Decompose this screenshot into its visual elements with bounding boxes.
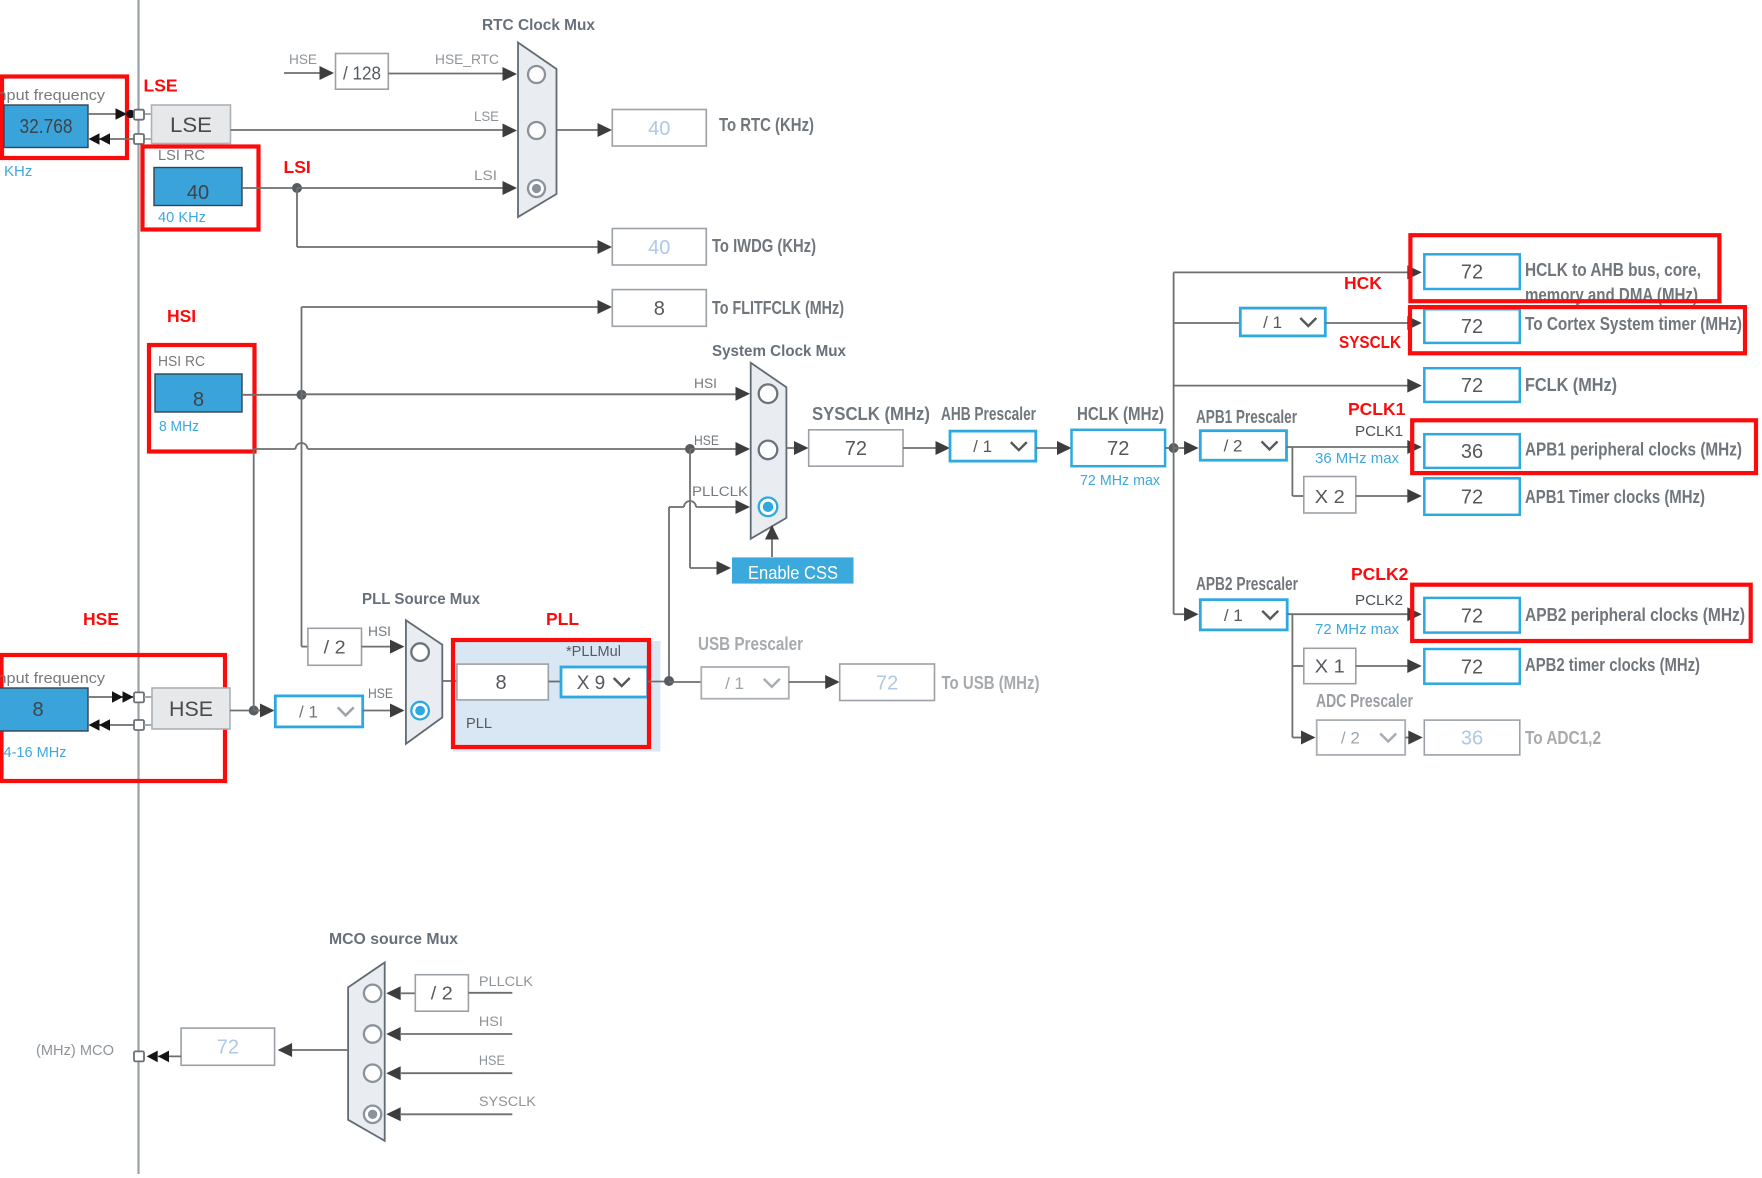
svg-text:ADC Prescaler: ADC Prescaler bbox=[1316, 691, 1413, 711]
svg-text:APB1 peripheral clocks (MHz): APB1 peripheral clocks (MHz) bbox=[1525, 440, 1742, 460]
svg-text:72 MHz max: 72 MHz max bbox=[1315, 621, 1399, 638]
wire X2 to value box bbox=[1356, 495, 1409, 497]
divider /2 box (PLL HSI) bbox=[308, 628, 362, 665]
svg-text:LSE: LSE bbox=[144, 76, 178, 96]
svg-text:LSI: LSI bbox=[284, 157, 311, 177]
wire branch FCLK bbox=[1174, 385, 1409, 387]
annotation box SYSCLK bbox=[1410, 307, 1745, 353]
value box ADC 36 (disabled) bbox=[1424, 720, 1520, 755]
svg-text:HSI: HSI bbox=[479, 1014, 503, 1029]
svg-text:/ 2: / 2 bbox=[431, 984, 453, 1004]
radio HSI input bbox=[759, 384, 778, 403]
radio PLLCLK input (selected) bbox=[759, 498, 778, 517]
LSI RC value box 40 bbox=[154, 168, 242, 206]
dropdown PLLMul X9 bbox=[561, 667, 648, 697]
radio HSI input bbox=[411, 643, 429, 661]
wire RTC mux output bbox=[557, 129, 600, 131]
dropdown APB2 Prescaler /1 bbox=[1200, 600, 1287, 630]
annotation box HSE input frequency bbox=[2, 655, 226, 781]
annotation box LSI RC bbox=[143, 147, 259, 230]
HSE oscillator box bbox=[152, 688, 230, 729]
wire branch to Cortex prescaler bbox=[1174, 322, 1241, 324]
svg-text:SYSCLK: SYSCLK bbox=[1339, 332, 1401, 352]
value box To FLITFCLK 8 bbox=[612, 290, 706, 327]
svg-text:APB1 Timer clocks (MHz): APB1 Timer clocks (MHz) bbox=[1525, 487, 1705, 507]
value box HCLK-to-AHB 72 bbox=[1424, 254, 1520, 289]
wire Cortex prescaler to value box bbox=[1325, 322, 1409, 324]
radio LSI input (selected) bbox=[528, 180, 545, 197]
svg-text:Enable CSS: Enable CSS bbox=[748, 563, 838, 583]
wire APB2 prescaler to value box bbox=[1287, 613, 1409, 615]
svg-text:72: 72 bbox=[1461, 656, 1483, 678]
radio PLLCLK input bbox=[364, 985, 381, 1002]
svg-text:APB2 timer clocks (MHz): APB2 timer clocks (MHz) bbox=[1525, 655, 1700, 675]
wire PLLCLK /2 into MCO mux bbox=[401, 992, 415, 994]
svg-text:/ 1: / 1 bbox=[725, 674, 744, 693]
mux MCO source Mux bbox=[348, 962, 385, 1140]
svg-text:HSI: HSI bbox=[167, 306, 196, 326]
annotation box HCK bbox=[1410, 235, 1719, 301]
value box Cortex timer 72 bbox=[1424, 309, 1520, 343]
divider /128 box bbox=[336, 54, 389, 90]
svg-text:LSI RC: LSI RC bbox=[158, 148, 205, 164]
svg-text:Input frequency: Input frequency bbox=[0, 88, 106, 104]
HSE input frequency value box 8 bbox=[0, 688, 88, 731]
svg-text:36: 36 bbox=[1461, 728, 1483, 750]
wire PLL output bbox=[648, 681, 669, 683]
HSI RC value box 8 bbox=[155, 374, 242, 412]
wire HSI to system clock mux bbox=[302, 393, 738, 395]
wire AHB prescaler to HCLK bbox=[1036, 447, 1059, 449]
radio HSE input (selected) bbox=[411, 702, 429, 720]
pin OSC_IN bbox=[134, 692, 144, 702]
wire APB2 to ADC prescaler bbox=[1291, 666, 1293, 738]
svg-text:To FLITFCLK (MHz): To FLITFCLK (MHz) bbox=[712, 298, 844, 318]
wire HSE output bbox=[230, 710, 254, 712]
svg-text:40: 40 bbox=[648, 237, 670, 259]
wire pin stubs to HSE box bbox=[144, 696, 152, 698]
value box APB2 peripheral 72 bbox=[1424, 598, 1520, 633]
wire HSE down to CSS bbox=[689, 449, 691, 568]
svg-text:HSE: HSE bbox=[479, 1053, 505, 1068]
mux System Clock Mux bbox=[751, 363, 787, 539]
svg-text:LSE: LSE bbox=[170, 114, 212, 137]
pin OSC_OUT bbox=[134, 720, 144, 730]
svg-text:HSE_RTC: HSE_RTC bbox=[435, 52, 499, 67]
LSE input frequency value box 32.768 bbox=[4, 105, 88, 148]
radio HSE input bbox=[759, 441, 778, 460]
radio HSE_RTC input bbox=[528, 66, 545, 83]
wire /2 to PLL mux bbox=[362, 646, 393, 648]
svg-text:PCLK1: PCLK1 bbox=[1348, 399, 1406, 419]
node PLLCLK junction bbox=[664, 676, 674, 686]
radio SYSCLK input (selected) bbox=[364, 1106, 381, 1123]
svg-text:40: 40 bbox=[648, 118, 670, 140]
svg-text:HSE: HSE bbox=[289, 52, 317, 67]
svg-text:72: 72 bbox=[845, 438, 867, 460]
svg-text:8: 8 bbox=[654, 298, 665, 320]
wire HSE up to system mux level bbox=[253, 449, 255, 711]
value box APB2 timer 72 bbox=[1424, 649, 1520, 684]
wire X1 to value box bbox=[1356, 665, 1409, 667]
button Enable CSS bbox=[732, 557, 854, 583]
svg-text:System Clock Mux: System Clock Mux bbox=[712, 343, 846, 360]
svg-text:HCLK to AHB bus, core,: HCLK to AHB bus, core, bbox=[1525, 260, 1701, 280]
svg-text:/ 2: / 2 bbox=[1224, 437, 1243, 456]
svg-text:To ADC1,2: To ADC1,2 bbox=[1525, 728, 1601, 748]
wire ADC prescaler to value box bbox=[1405, 737, 1410, 739]
mux RTC Clock Mux bbox=[518, 43, 557, 218]
svg-text:72: 72 bbox=[1107, 438, 1129, 460]
node HSE junction bbox=[249, 706, 259, 716]
svg-text:HCLK (MHz): HCLK (MHz) bbox=[1077, 404, 1164, 424]
radio HSI input bbox=[364, 1025, 381, 1042]
svg-text:To USB (MHz): To USB (MHz) bbox=[942, 673, 1040, 693]
svg-text:HCK: HCK bbox=[1344, 273, 1382, 293]
svg-text:HSI RC: HSI RC bbox=[158, 354, 205, 370]
wire HCLK junction to APB1 prescaler bbox=[1174, 447, 1186, 449]
PLL block background bbox=[453, 641, 660, 752]
wire HSI into MCO mux bbox=[401, 1033, 512, 1035]
svg-text:LSE: LSE bbox=[474, 109, 499, 124]
wire PLL to USB prescaler bbox=[669, 681, 701, 683]
radio HSE input bbox=[364, 1065, 381, 1082]
wire APB1 prescaler to value box bbox=[1287, 446, 1410, 448]
divider /2 box (MCO) bbox=[415, 975, 468, 1012]
svg-text:HSE: HSE bbox=[368, 686, 393, 701]
svg-text:PLL: PLL bbox=[546, 609, 579, 629]
svg-text:72: 72 bbox=[217, 1037, 239, 1059]
wire USB prescaler to value box bbox=[789, 681, 827, 683]
wire HCLK output to tree bbox=[1165, 447, 1174, 449]
value box To IWDG 40 bbox=[612, 229, 706, 266]
svg-text:8: 8 bbox=[193, 389, 204, 411]
svg-text:/ 2: / 2 bbox=[1341, 729, 1360, 748]
wire SYSCLK to AHB prescaler bbox=[903, 447, 938, 449]
wire APB1 to X2 bbox=[1291, 447, 1293, 496]
wire HSI to /2 divider bbox=[302, 646, 308, 648]
svg-text:40 KHz: 40 KHz bbox=[158, 209, 206, 226]
svg-text:MCO source Mux: MCO source Mux bbox=[329, 931, 458, 948]
wire LSE osc-in with arrow bbox=[88, 113, 130, 115]
svg-text:SYSCLK (MHz): SYSCLK (MHz) bbox=[812, 404, 930, 424]
wire HSI trunk vertical bbox=[301, 307, 303, 647]
pin MCO bbox=[134, 1051, 144, 1061]
wire trunk vertical right bbox=[1173, 272, 1175, 614]
value box SYSCLK 72 bbox=[809, 430, 903, 466]
wire LSE osc-out with double arrow bbox=[99, 138, 134, 140]
wire CSS arrow into mux bottom bbox=[771, 538, 773, 557]
wire PLL mux output to PLL bbox=[442, 680, 457, 682]
wire LSI to RTC mux bbox=[297, 187, 505, 189]
annotation box PLL bbox=[453, 640, 649, 747]
value box FCLK 72 bbox=[1424, 368, 1520, 402]
svg-text:RTC Clock Mux: RTC Clock Mux bbox=[482, 17, 595, 34]
svg-text:PCLK2: PCLK2 bbox=[1351, 564, 1409, 584]
svg-text:8: 8 bbox=[495, 672, 506, 694]
svg-text:HSE: HSE bbox=[694, 433, 719, 448]
svg-text:PCLK2: PCLK2 bbox=[1355, 592, 1403, 609]
svg-text:/ 128: / 128 bbox=[343, 64, 381, 84]
svg-text:X 2: X 2 bbox=[1315, 487, 1345, 507]
wire PLL box to PLLMul bbox=[548, 681, 561, 683]
annotation box HSI RC bbox=[149, 345, 255, 452]
value box HCLK 72 bbox=[1072, 430, 1166, 466]
svg-text:8: 8 bbox=[32, 699, 43, 721]
wire LSI output bbox=[242, 187, 297, 189]
svg-text:Input frequency: Input frequency bbox=[0, 671, 106, 687]
svg-text:KHz: KHz bbox=[4, 163, 32, 180]
annotation box PCLK1 bbox=[1412, 420, 1756, 473]
annotation box PCLK2 bbox=[1412, 585, 1751, 641]
svg-text:32.768: 32.768 bbox=[20, 116, 73, 138]
svg-text:APB2 Prescaler: APB2 Prescaler bbox=[1196, 574, 1298, 594]
value box MCO 72 (disabled) bbox=[181, 1028, 275, 1065]
svg-text:72 MHz max: 72 MHz max bbox=[1080, 472, 1160, 489]
svg-text:*PLLMul: *PLLMul bbox=[566, 644, 621, 660]
dropdown Cortex prescaler /1 bbox=[1240, 308, 1325, 336]
svg-text:PLLCLK: PLLCLK bbox=[692, 484, 748, 499]
svg-text:36 MHz max: 36 MHz max bbox=[1315, 450, 1399, 467]
svg-text:/ 2: / 2 bbox=[324, 638, 346, 658]
svg-text:To IWDG (KHz): To IWDG (KHz) bbox=[712, 236, 816, 256]
annotation box LSE input frequency bbox=[2, 77, 127, 159]
wire APB2 to X1 bbox=[1291, 614, 1293, 666]
node HSI junction bbox=[297, 390, 307, 400]
svg-text:X 1: X 1 bbox=[1315, 657, 1345, 677]
dropdown AHB Prescaler /1 bbox=[950, 431, 1036, 461]
svg-text:(MHz) MCO: (MHz) MCO bbox=[36, 1043, 114, 1059]
mux PLL Source Mux bbox=[406, 620, 442, 744]
svg-text:72: 72 bbox=[1461, 316, 1483, 338]
value box APB1 timer 72 bbox=[1424, 478, 1520, 515]
svg-text:/ 1: / 1 bbox=[1224, 606, 1243, 625]
wire HSE into system mux bbox=[690, 448, 737, 450]
svg-text:72: 72 bbox=[1461, 487, 1483, 509]
svg-text:/ 1: / 1 bbox=[1263, 313, 1282, 332]
svg-text:SYSCLK: SYSCLK bbox=[479, 1094, 536, 1109]
LSE oscillator box bbox=[152, 105, 231, 144]
svg-text:To Cortex System timer (MHz): To Cortex System timer (MHz) bbox=[1525, 314, 1742, 334]
svg-text:72: 72 bbox=[1461, 375, 1483, 397]
node HSE-CSS junction bbox=[685, 444, 695, 454]
svg-text:PLLCLK: PLLCLK bbox=[479, 974, 533, 989]
wire HSE osc-in with double arrow bbox=[88, 696, 134, 698]
wire LSI to IWDG bbox=[296, 188, 298, 247]
pin OSC32_OUT bbox=[134, 134, 144, 144]
wire HSE into MCO mux bbox=[401, 1072, 512, 1074]
svg-text:AHB Prescaler: AHB Prescaler bbox=[941, 404, 1036, 424]
svg-text:FCLK (MHz): FCLK (MHz) bbox=[1525, 375, 1617, 395]
svg-text:HSE: HSE bbox=[169, 698, 213, 721]
svg-text:HSI: HSI bbox=[368, 624, 391, 639]
wire trunk to APB2 prescaler bbox=[1174, 613, 1186, 615]
wire HSI to FLITFCLK bbox=[302, 306, 601, 308]
wire MCO mux output bbox=[291, 1049, 348, 1051]
wire HSE junction to /1 prescaler with arrow bbox=[254, 710, 262, 712]
svg-text:X 9: X 9 bbox=[577, 673, 606, 694]
svg-text:72: 72 bbox=[1461, 262, 1483, 284]
svg-text:8 MHz: 8 MHz bbox=[159, 418, 199, 435]
svg-text:To RTC (KHz): To RTC (KHz) bbox=[719, 115, 814, 135]
node HCLK junction bbox=[1169, 443, 1179, 453]
wire PLLCLK stub bbox=[468, 992, 512, 994]
svg-text:USB Prescaler: USB Prescaler bbox=[698, 634, 803, 654]
svg-text:APB2 peripheral clocks (MHz): APB2 peripheral clocks (MHz) bbox=[1525, 605, 1745, 625]
dropdown APB1 Prescaler /2 bbox=[1200, 431, 1286, 461]
dropdown HSE prescaler /1 bbox=[275, 696, 362, 727]
svg-text:PCLK1: PCLK1 bbox=[1355, 423, 1403, 440]
radio LSE input bbox=[528, 122, 545, 139]
wire system mux output bbox=[786, 447, 797, 449]
wire PLLCLK vertical from PLL output bbox=[668, 507, 670, 681]
svg-text:PLL: PLL bbox=[466, 716, 492, 732]
dropdown USB Prescaler /1 (disabled) bbox=[701, 667, 789, 699]
svg-text:72: 72 bbox=[1461, 605, 1483, 627]
svg-text:/ 1: / 1 bbox=[973, 437, 992, 456]
svg-text:LSI: LSI bbox=[474, 168, 497, 183]
svg-text:HSI: HSI bbox=[694, 376, 717, 391]
svg-text:APB1 Prescaler: APB1 Prescaler bbox=[1196, 407, 1297, 427]
value box APB1 peripheral 36 bbox=[1424, 434, 1520, 468]
wire MCO to pin with double arrow bbox=[158, 1055, 181, 1057]
chip boundary line bbox=[137, 0, 139, 1174]
pin OSC32_IN bbox=[134, 110, 144, 120]
wire HSI output bbox=[242, 394, 302, 396]
wire branch HCLK to AHB bbox=[1174, 271, 1409, 273]
multiplier X2 box bbox=[1304, 477, 1356, 514]
svg-text:HSE: HSE bbox=[83, 609, 119, 629]
value box To RTC 40 bbox=[612, 110, 706, 147]
wire PLLCLK into system mux with hop bbox=[669, 506, 684, 508]
svg-text:/ 1: / 1 bbox=[299, 703, 318, 722]
svg-text:PLL Source Mux: PLL Source Mux bbox=[362, 591, 480, 608]
value box To USB 72 (disabled) bbox=[840, 664, 935, 701]
multiplier X1 box bbox=[1304, 648, 1356, 683]
svg-text:4-16 MHz: 4-16 MHz bbox=[4, 744, 67, 761]
wire SYSCLK into MCO mux bbox=[401, 1113, 512, 1115]
wire /1 to PLL mux bbox=[363, 710, 392, 712]
dropdown ADC Prescaler /2 (disabled) bbox=[1317, 720, 1406, 755]
svg-text:36: 36 bbox=[1461, 441, 1483, 463]
svg-text:72: 72 bbox=[876, 672, 898, 694]
svg-text:40: 40 bbox=[187, 182, 209, 204]
wire HSE osc-out with double arrow bbox=[99, 724, 134, 726]
PLL input value box 8 bbox=[457, 664, 548, 700]
wire HSE horizontal to system mux with hop bbox=[254, 448, 296, 450]
node LSI junction bbox=[292, 183, 302, 193]
